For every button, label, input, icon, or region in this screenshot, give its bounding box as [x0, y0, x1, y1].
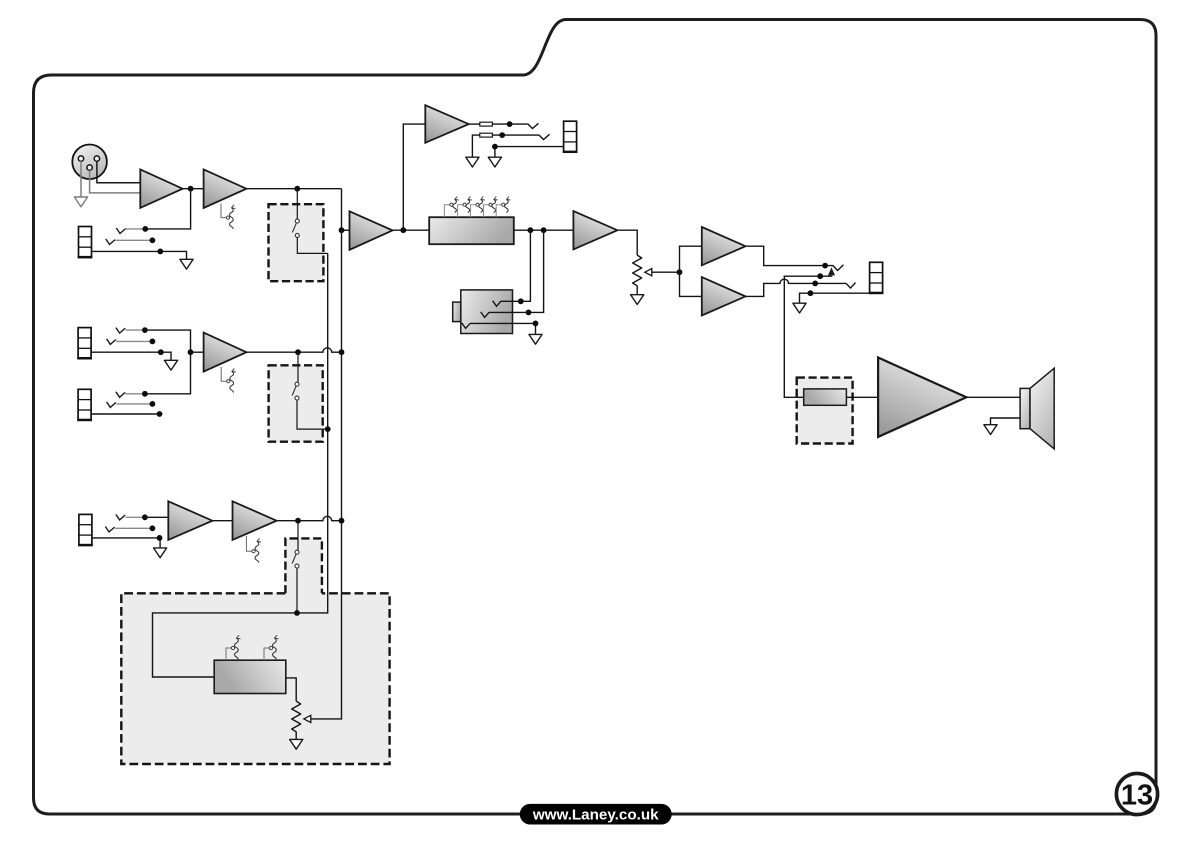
switch contact J3 ring [107, 402, 116, 408]
op-amp U1 (ch1 input amp) [140, 169, 182, 208]
ground (J1 sleeve) [180, 259, 193, 269]
ground (J4 sleeve) [154, 548, 167, 558]
wire U8 out to master pot [617, 230, 637, 255]
wire U10 out to phones ring with hop [746, 279, 856, 296]
wire XLR pin3 to U1 [90, 170, 141, 193]
pot squiggle EQ3 [476, 197, 485, 213]
wire bus to mixer U6 [342, 229, 350, 231]
wire J1 ring to dot [115, 239, 152, 241]
wire FX tap up to U7 [403, 124, 425, 230]
wire ch1 node to switch S1 [296, 189, 298, 219]
wire ch3 node to switch S3 [297, 521, 299, 550]
op-amp U8 (master amp) [573, 211, 617, 249]
wire J3 sleeve [91, 413, 159, 415]
wire split to U9/U10 [680, 246, 702, 296]
node FX send [507, 121, 513, 127]
wire XLR pin2 to U1 [97, 161, 140, 183]
contact lineout ring [481, 312, 529, 318]
op-amp U9 (headphone amp A) [702, 227, 746, 265]
EQ block TONE [429, 217, 514, 244]
EQ pot stem 5 [496, 205, 501, 218]
switch contact J4 tip [116, 514, 125, 520]
node J2 tip [142, 327, 148, 333]
pot squiggle VR2 [227, 368, 236, 392]
resistor R2 [480, 133, 493, 137]
switch contact J2 tip [116, 328, 125, 334]
switch S1 (ch1 select) [292, 219, 299, 237]
node J4 ring [150, 525, 156, 531]
ground (FX sleeve) [488, 157, 501, 167]
wire main bus [311, 189, 342, 719]
jack J5 (FX loop jack) [563, 121, 578, 152]
wire J2 ring to dot [116, 340, 152, 342]
svg-text:www.Laney.co.uk: www.Laney.co.uk [532, 806, 659, 823]
wire J4 sleeve to ground [92, 538, 160, 548]
wire EQ out to master amp [514, 229, 574, 231]
switch contact J4 ring [105, 527, 114, 533]
wire J2 sleeve to ground [91, 352, 171, 360]
pot squiggle reverb 1 [231, 635, 240, 659]
wire lineout sleeve to ground [470, 323, 536, 334]
op-amp U2 (ch1 gain amp) [204, 169, 247, 208]
node phones ring [812, 281, 818, 287]
jack J1 (ch1 input jack) [78, 227, 93, 258]
wire J3 ring to dot [116, 403, 152, 405]
wire J1 tip to ch1 node [145, 189, 190, 229]
reverb pot stem 1 [226, 648, 231, 660]
reverb pot stem 2 [264, 648, 269, 660]
node lineout ring [526, 310, 532, 316]
potentiometer VR4 (reverb level) [292, 701, 301, 739]
node ch2 input [188, 349, 194, 355]
node ch1-a [188, 186, 194, 192]
gain control VR1 [221, 204, 226, 218]
wire U11 out to speaker [966, 396, 1020, 398]
node lineout tip [518, 298, 524, 304]
wire U9 out to phones tip [746, 246, 844, 270]
op-amp U5 (ch3 gain amp) [233, 501, 277, 540]
XLR connector CN1 [72, 145, 107, 180]
ground (master pot) [631, 295, 644, 305]
node J1 sleeve [157, 249, 163, 255]
wiper arrow VR5 [645, 269, 652, 276]
wire U7 out to R1 [469, 123, 480, 125]
pot squiggle EQ5 [502, 197, 511, 213]
dashed attenuator box [797, 378, 853, 444]
wire ch2 node to switch S2 [297, 352, 299, 382]
wire ch2 node to U3 [191, 351, 204, 353]
pot squiggle EQ4 [489, 197, 498, 213]
power amp U11 [878, 358, 966, 437]
node ch2 on main bus [339, 349, 345, 355]
wire S2 out to switched bus [297, 400, 328, 429]
wire J3 tip to ch2 node [145, 352, 191, 394]
switch contact J1 tip [116, 228, 125, 234]
node FX sleeve [492, 144, 498, 150]
gain control VR2 [221, 367, 226, 381]
node J4 tip [142, 514, 148, 520]
node S2 on switched bus [325, 426, 331, 432]
wire U3 out with hop over switched bus [246, 348, 341, 352]
EQ pot stem 1 [444, 205, 449, 218]
pot squiggle EQ1 [450, 197, 459, 213]
wire reverb out to level pot [286, 678, 296, 701]
node J3 tip [142, 391, 148, 397]
ground (XLR pin1) [74, 197, 87, 207]
pot squiggle reverb 2 [269, 635, 278, 659]
wire J1 tip to dot [126, 228, 146, 230]
dashed reverb box [121, 593, 389, 764]
op-amp U7 (FX send amp) [425, 105, 468, 143]
speaker LS1 [1020, 368, 1054, 449]
pot squiggle VR3 [252, 538, 261, 562]
ground (lineout sleeve) [529, 334, 542, 344]
wire phones sleeve to ground [800, 293, 870, 303]
wire J4 tip to dot [126, 516, 145, 518]
ground (speaker) [984, 425, 997, 435]
wire U6 out to EQ [393, 229, 430, 231]
dashed footswitch box FS3 [285, 538, 322, 593]
pot squiggle EQ2 [463, 197, 472, 213]
wire wiper to headphone amps [652, 271, 680, 273]
wire U4 to U5 [212, 520, 232, 522]
ground (FX return) [466, 157, 479, 167]
switch contact J3 tip [116, 392, 125, 398]
node J2 sleeve [158, 349, 164, 355]
wire speaker return to ground [991, 418, 1021, 425]
dashed footswitch box FS1 [269, 204, 324, 281]
jack J3 (ch2 input B) [77, 389, 92, 420]
node FX tap [400, 227, 406, 233]
wire phones NC to power amp [784, 276, 832, 397]
dashed footswitch box FS2 [269, 365, 323, 441]
node mixer input on main bus [339, 227, 345, 233]
EQ pot stem 3 [471, 205, 476, 218]
op-amp U10 (headphone amp B) [702, 277, 746, 315]
wire J2 tip to ch2 node [145, 330, 191, 352]
switch contact J1 ring [106, 239, 115, 245]
EQ pot stem 4 [484, 205, 489, 218]
wiper arrow VR4 [304, 715, 311, 722]
wire U1 out [183, 188, 204, 190]
jack J6 (phones jack) [869, 262, 884, 293]
switch contact J2 ring [107, 339, 116, 345]
node J1 ring [150, 237, 156, 243]
resistor R3 (attenuator) [804, 389, 847, 405]
wire S3 out to reverb send line [296, 568, 298, 613]
wire switched bus (to reverb send) [153, 253, 328, 677]
lineout jack block J7 [453, 290, 513, 334]
gain control VR3 [246, 536, 251, 551]
node ch2-out [295, 349, 301, 355]
wire FX jack sleeve [495, 147, 564, 158]
op-amp U6 (mixer) [350, 211, 393, 250]
wire J2 tip to dot [126, 329, 145, 331]
node phones NC [817, 273, 823, 279]
wire S1 out to switched bus [297, 238, 327, 254]
node J3 sleeve [157, 411, 163, 417]
node headphone split [677, 269, 683, 275]
ground (J2 sleeve) [164, 360, 177, 370]
node ch1-out [294, 186, 300, 192]
resistor R1 [480, 122, 493, 126]
node S3 on reverb send [294, 610, 300, 616]
op-amp U3 (ch2 amp) [204, 333, 247, 372]
wire XLR pin1 to ground [80, 161, 82, 197]
wire U5 out with hop over switched bus [277, 516, 342, 520]
contact lineout sleeve [462, 323, 470, 329]
wire tap1 down to lineout jack [521, 230, 531, 301]
contact lineout tip [493, 301, 521, 307]
node J2 ring [150, 339, 156, 345]
node ch3-out [295, 518, 301, 524]
switch S3 (ch3 select) [292, 550, 299, 568]
wire U2 out to bus [246, 188, 341, 190]
www.Laney.co.uk pill [520, 804, 672, 825]
normalling arrow (phones) [828, 267, 835, 275]
page number badge 13 [1116, 773, 1157, 814]
wire R3 to power amp [846, 396, 878, 398]
node phones tip [822, 263, 828, 269]
wire J4 tip to U4 [145, 516, 168, 518]
node phones sleeve [808, 290, 814, 296]
jack J4 (ch3 input) [78, 514, 93, 545]
node lineout sleeve [533, 321, 539, 327]
node J3 ring [150, 401, 156, 407]
reverb tank block RV1 [214, 660, 286, 693]
pot squiggle VR1 [226, 205, 235, 229]
wire R2 to FX return contact [492, 134, 549, 139]
wire J1 sleeve to ground [91, 251, 186, 259]
wire J3 tip to dot [126, 393, 145, 395]
potentiometer VR5 (master volume) [633, 255, 642, 295]
node FX return [499, 132, 505, 138]
EQ pot stem 2 [458, 205, 463, 218]
node ch3 on main bus [339, 518, 345, 524]
op-amp U4 (ch3 input amp) [168, 501, 212, 540]
switch S2 (ch2 select) [292, 382, 299, 400]
wire R1 to FX send contact [492, 123, 538, 128]
node lineout tap 1 [528, 227, 534, 233]
node J1 tip [142, 226, 148, 232]
wire FX return ground branch [472, 135, 479, 157]
jack J2 (ch2 input A) [77, 328, 92, 359]
node J4 sleeve [157, 535, 163, 541]
ground (phones sleeve) [793, 303, 806, 313]
node lineout tap 2 [541, 227, 547, 233]
wire J4 ring to dot [115, 527, 152, 529]
wire tap2 down to lineout jack [529, 230, 544, 312]
svg-text:13: 13 [1121, 779, 1153, 811]
ground (reverb pot) [290, 739, 303, 749]
